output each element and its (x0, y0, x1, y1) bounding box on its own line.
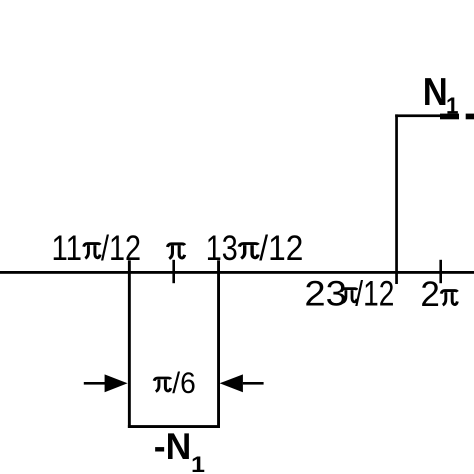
svg-text:/12: /12 (259, 228, 303, 268)
svg-text:/6: /6 (172, 367, 196, 400)
svg-text:1: 1 (191, 452, 205, 474)
svg-text:11: 11 (52, 228, 83, 268)
svg-text:1: 1 (446, 93, 459, 119)
svg-text:/12: /12 (101, 228, 141, 268)
svg-text:-N: -N (154, 426, 192, 467)
svg-text:23: 23 (304, 274, 347, 314)
svg-text:13: 13 (206, 228, 238, 268)
svg-text:N: N (423, 71, 448, 114)
svg-text:/12: /12 (355, 274, 394, 314)
svg-text:2: 2 (420, 274, 440, 314)
